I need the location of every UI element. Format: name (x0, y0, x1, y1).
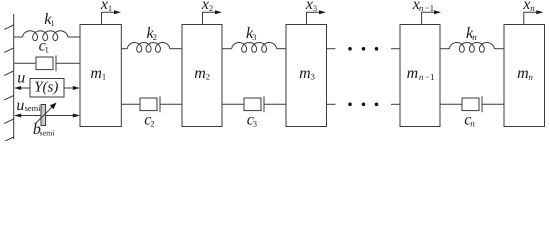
actuator Y(s) (30, 79, 64, 98)
svg-text:n: n (470, 118, 475, 128)
wire stub damper row right of dots (391, 103, 400, 105)
wire stub damper row left of dots (327, 103, 336, 105)
mass mn (504, 25, 545, 127)
spring k1 (14, 11, 80, 40)
damper cn (440, 96, 504, 128)
wall (fixed support, left) (4, 14, 14, 141)
label u_semi (16, 97, 41, 114)
svg-text:n: n (419, 72, 424, 82)
svg-text:x: x (522, 0, 530, 13)
svg-text:2: 2 (209, 3, 213, 13)
damper c1 (14, 38, 80, 72)
svg-text:semi: semi (40, 129, 56, 138)
svg-text:3: 3 (311, 72, 315, 82)
mass m(n-1) (400, 25, 440, 127)
spring k2 (121, 25, 182, 52)
displacement arrow x1 (100, 0, 121, 24)
svg-text:u: u (17, 70, 25, 87)
spring kn (440, 25, 504, 52)
svg-text:n: n (530, 3, 535, 13)
spring k3 (222, 25, 286, 52)
svg-text:x: x (201, 0, 209, 13)
svg-text:1: 1 (45, 45, 49, 55)
displacement arrow x3 (305, 0, 326, 24)
displacement arrow xn (522, 0, 543, 24)
svg-text:3: 3 (253, 118, 257, 128)
svg-text:m: m (194, 65, 206, 82)
svg-text:n: n (472, 32, 477, 42)
mass m2 (182, 25, 222, 127)
svg-text:u: u (16, 97, 24, 114)
mass m3 (286, 25, 327, 127)
svg-text:3: 3 (313, 3, 317, 13)
wire stub spring row left of dots (327, 48, 336, 50)
wire stub spring row right of dots (391, 48, 400, 50)
wire u actuator left arrow (14, 86, 30, 90)
displacement arrow x2 (201, 0, 222, 24)
svg-text:−1: −1 (425, 3, 435, 13)
svg-text:Y(s): Y(s) (34, 79, 58, 95)
svg-text:2: 2 (206, 72, 210, 82)
damper c3 (222, 96, 286, 128)
svg-text:n: n (419, 3, 424, 13)
svg-text:1: 1 (108, 3, 112, 13)
svg-text:m: m (517, 65, 529, 82)
ellipsis dots damper row (348, 103, 378, 107)
svg-text:n: n (528, 72, 533, 82)
mass m1 (80, 25, 121, 127)
svg-text:x: x (100, 0, 108, 13)
svg-text:semi: semi (25, 103, 42, 113)
svg-text:1: 1 (51, 18, 55, 28)
svg-text:3: 3 (252, 32, 256, 42)
semi-active damper b_semi (36, 103, 57, 126)
svg-text:2: 2 (153, 32, 157, 42)
ellipsis dots spring row (348, 47, 378, 51)
svg-text:1: 1 (102, 72, 106, 82)
wire u actuator right arrow (64, 86, 80, 90)
wire u_semi double arrow (14, 114, 80, 118)
displacement arrow x(n-1) (412, 0, 441, 24)
damper c2 (121, 96, 182, 128)
svg-text:2: 2 (150, 118, 154, 128)
svg-text:m: m (299, 65, 311, 82)
svg-text:m: m (407, 65, 419, 82)
label b_semi (33, 121, 55, 138)
svg-text:−1: −1 (425, 72, 435, 82)
svg-text:m: m (90, 65, 102, 82)
svg-text:x: x (305, 0, 313, 13)
